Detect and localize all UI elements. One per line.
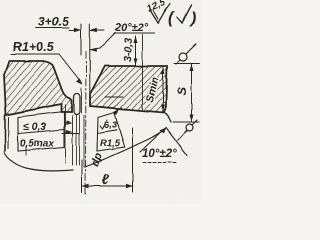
- l dimension line: [82, 185, 133, 187]
- arrowhead 20deg: [90, 48, 97, 52]
- arrowhead 3+0.5 left: [74, 28, 81, 32]
- arrowhead S bottom: [190, 115, 194, 122]
- gap edge line right: [89, 24, 91, 93]
- 20 deg leader: [90, 33, 154, 50]
- tick inside right plate: [105, 96, 123, 98]
- dimension 3+0.5 line right: [91, 29, 104, 31]
- leader tick under tolerance box: [25, 147, 27, 155]
- 10 deg wedge lines: [140, 128, 166, 153]
- S dimension extension top: [174, 63, 199, 65]
- l extension right: [132, 128, 134, 192]
- lower slot lines: [64, 105, 66, 163]
- callout box 6,3 / R1,5: [97, 113, 125, 152]
- arrowhead 3+0.5 right: [90, 28, 97, 32]
- l extension left: [81, 160, 83, 193]
- tick across slot: [62, 133, 79, 135]
- dimension line 3-0.3 / S min: [135, 36, 137, 65]
- arrowhead root face: [76, 78, 82, 84]
- surface check top right (12,5): [150, 9, 166, 23]
- paper grain: [0, 0, 202, 204]
- check mark at 6,3: [100, 120, 107, 129]
- left plate outline: [4, 61, 72, 115]
- S dimension extension bottom: [173, 121, 199, 123]
- arrowhead l left: [82, 184, 89, 188]
- arrow from box row1: [64, 122, 71, 124]
- dimension 3+0.5 line left: [69, 29, 80, 31]
- underline R1+0.5: [11, 54, 81, 82]
- break curve right: [85, 128, 166, 167]
- root insert capsule: [74, 94, 81, 115]
- gap edge line left: [80, 24, 82, 55]
- arrowhead S top: [190, 64, 194, 71]
- arrowhead 3-0.3 top: [134, 36, 138, 43]
- centre line (dash-dot): [85, 52, 88, 195]
- arrowhead 10deg apex: [160, 128, 166, 134]
- arrowhead box row1: [66, 121, 73, 125]
- underline 3+0.5: [36, 27, 69, 29]
- left plate break line bottom: [4, 152, 73, 171]
- roughness circle top right: [179, 53, 187, 61]
- arrowhead 3-0.3 bottom / Smin top: [134, 58, 138, 65]
- leader of callout box: [114, 108, 122, 113]
- left plate left edge lower: [4, 115, 6, 151]
- arrowhead Smin bottom: [161, 67, 165, 74]
- right plate outline: [90, 66, 167, 113]
- arrowhead callout leader: [113, 109, 120, 116]
- arrowhead l right: [126, 184, 133, 188]
- roughness circle bottom right: [186, 124, 193, 131]
- S dimension line: [191, 64, 193, 122]
- arrow from box row2: [64, 131, 71, 133]
- tolerance box (0.3 / 0.5max): [18, 112, 64, 152]
- dashed underline 10deg: [143, 162, 177, 164]
- arrowhead box row2: [66, 130, 73, 134]
